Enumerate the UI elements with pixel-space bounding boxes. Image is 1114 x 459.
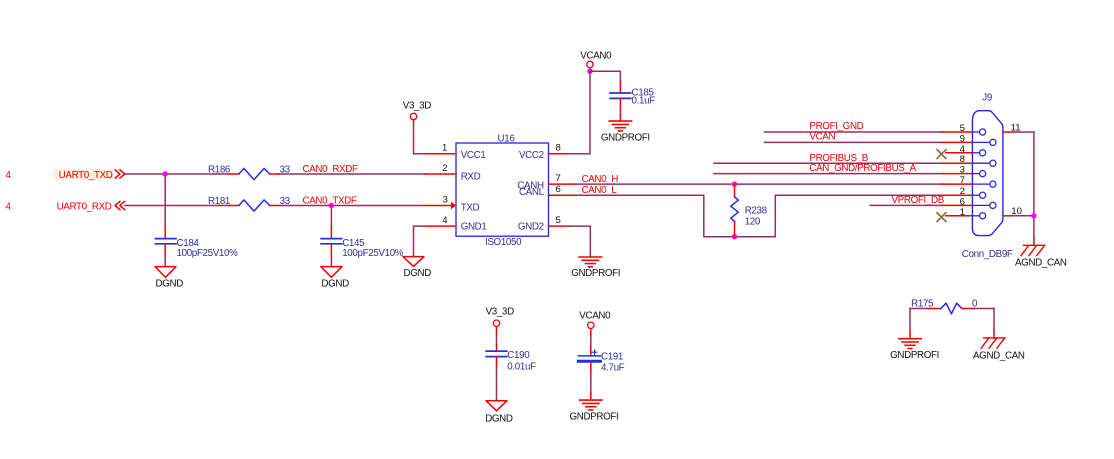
ground GNDPROFI (C185) xyxy=(601,114,650,143)
svg-text:7: 7 xyxy=(960,175,965,186)
resistor R238 termination xyxy=(731,184,768,237)
svg-text:6: 6 xyxy=(556,184,561,195)
junction VCAN0 xyxy=(587,69,592,74)
ground GNDPROFI (C191) xyxy=(570,393,619,423)
svg-text:GNDPROFI: GNDPROFI xyxy=(601,132,650,143)
svg-text:ISO1050: ISO1050 xyxy=(485,237,522,248)
svg-text:UART0_RXD: UART0_RXD xyxy=(57,201,112,212)
op-amp U16 ISO1050 body xyxy=(456,133,549,248)
junction B on CAN0_TXDF net xyxy=(329,203,334,208)
pin 2 RXD xyxy=(425,163,456,174)
capacitor C185 xyxy=(610,82,655,111)
svg-text:8: 8 xyxy=(960,154,965,165)
svg-text:GND2: GND2 xyxy=(518,222,544,233)
J9 pin 7 xyxy=(942,175,996,187)
J9 pin 6 xyxy=(942,196,996,208)
svg-text:C190: C190 xyxy=(507,350,530,361)
ground DGND (pin 4) xyxy=(403,257,431,279)
pin 6 CANL xyxy=(549,184,577,195)
power VCAN0 (C185) xyxy=(580,50,612,69)
ground DGND (C184) xyxy=(155,267,183,290)
wire C184 to DGND xyxy=(164,257,166,266)
wire V3_3D to C190 xyxy=(496,335,498,345)
svg-text:120: 120 xyxy=(745,216,761,227)
svg-text:VCAN: VCAN xyxy=(809,131,835,142)
svg-text:R181: R181 xyxy=(208,196,230,207)
svg-text:AGND_CAN: AGND_CAN xyxy=(973,351,1025,362)
svg-text:R186: R186 xyxy=(208,164,231,175)
power V3_3D (C190) xyxy=(486,307,514,335)
svg-text:0.01uF: 0.01uF xyxy=(507,362,536,373)
svg-text:C191: C191 xyxy=(601,351,623,362)
svg-text:J9: J9 xyxy=(982,92,992,103)
wire C185 to GNDPROFI xyxy=(619,111,621,114)
port UART0_TXD xyxy=(54,169,125,181)
ground GNDPROFI (pin 5) xyxy=(571,257,620,279)
svg-text:CANL: CANL xyxy=(519,187,545,198)
ground DGND (C190) xyxy=(485,401,513,425)
junction R238 bottom xyxy=(732,234,737,239)
svg-text:4.7uF: 4.7uF xyxy=(601,362,625,373)
J9 pin 4 with no-connect X xyxy=(937,144,986,159)
svg-text:VCC1: VCC1 xyxy=(461,150,486,161)
svg-text:DGND: DGND xyxy=(321,278,349,289)
wire VCAN0 to C191 xyxy=(590,337,592,347)
wire UART0_RXD to R181 xyxy=(125,205,230,207)
J9 pin 11 shell xyxy=(1003,122,1020,133)
svg-text:CAN0_TXDF: CAN0_TXDF xyxy=(303,196,357,207)
pin 7 CANH xyxy=(549,173,577,184)
svg-text:VCAN0: VCAN0 xyxy=(579,311,611,322)
wire pin 5 to GNDPROFI xyxy=(569,226,590,257)
svg-text:UART0_TXD: UART0_TXD xyxy=(59,170,113,181)
svg-text:AGND_CAN: AGND_CAN xyxy=(1015,258,1067,269)
svg-text:DGND: DGND xyxy=(156,278,184,289)
ground AGND_CAN (R175) xyxy=(973,331,1025,362)
capacitor C191 polarized xyxy=(578,347,624,375)
ground GNDPROFI (R175) xyxy=(890,332,939,362)
J9 pin 8 xyxy=(942,154,996,166)
wire V3_3D to pin 1 xyxy=(414,125,425,154)
svg-text:GNDPROFI: GNDPROFI xyxy=(570,412,619,423)
J9 pin 9 xyxy=(942,133,996,145)
wire CAN_GND/PROFIBUS_A xyxy=(714,173,942,175)
wire shell 11 to shell 10 to AGND_CAN xyxy=(1014,132,1034,238)
svg-text:5: 5 xyxy=(556,215,561,226)
svg-text:GNDPROFI: GNDPROFI xyxy=(890,350,939,361)
wire R181 to pin 3 xyxy=(279,205,424,207)
svg-text:4: 4 xyxy=(6,202,12,213)
J9 pin 3 xyxy=(942,165,986,177)
J9 pin 1 with no-connect X xyxy=(937,207,986,222)
svg-text:Conn_DB9F: Conn_DB9F xyxy=(962,249,1013,260)
wire C191 to GNDPROFI xyxy=(590,374,592,393)
wire CAN0_L pin6 jog to connector pin 2 xyxy=(576,195,942,237)
power V3_3D (U16) xyxy=(403,100,431,124)
svg-text:6: 6 xyxy=(960,196,965,207)
wire CAN0_H pin7 to connector pin 7 xyxy=(576,183,942,185)
wire C145 to DGND xyxy=(330,257,332,266)
wire R175 left to GNDPROFI xyxy=(909,309,911,332)
resistor R175 xyxy=(910,299,994,314)
pin 4 GND1 xyxy=(424,215,456,226)
wire VPROFI_DB xyxy=(870,204,942,206)
pin 8 VCC2 xyxy=(549,143,569,154)
svg-text:5: 5 xyxy=(960,123,965,134)
svg-text:1: 1 xyxy=(960,207,965,218)
svg-text:4: 4 xyxy=(960,144,966,155)
wire R186 to pin 2 xyxy=(279,173,425,175)
wire PROFIBUS_B xyxy=(714,162,942,164)
svg-text:0.1uF: 0.1uF xyxy=(632,95,656,106)
wire junction A down to C184 xyxy=(164,174,166,227)
svg-text:U16: U16 xyxy=(498,133,516,144)
svg-text:8: 8 xyxy=(556,143,561,154)
J9 pin 5 xyxy=(942,123,986,135)
capacitor C184 xyxy=(155,227,238,259)
port UART0_RXD xyxy=(57,201,125,212)
J9 pin 2 xyxy=(942,186,986,198)
resistor R181 xyxy=(208,196,291,211)
svg-text:100pF25V10%: 100pF25V10% xyxy=(177,248,239,259)
wire R175 right to AGND_CAN xyxy=(993,309,995,331)
svg-text:VPROFI_DB: VPROFI_DB xyxy=(892,195,945,206)
capacitor C190 xyxy=(486,345,536,373)
wire junction B down to C145 xyxy=(330,206,332,228)
wire VCAN0 to C185 xyxy=(590,71,620,82)
ground DGND (C145) xyxy=(321,267,349,290)
svg-text:V3_3D: V3_3D xyxy=(403,100,431,111)
power VCAN0 (C191) xyxy=(579,311,611,337)
resistor R186 xyxy=(208,164,291,179)
svg-text:0: 0 xyxy=(972,299,978,310)
svg-text:2: 2 xyxy=(442,163,447,174)
svg-text:7: 7 xyxy=(556,173,561,184)
wire VCAN0 down to pin 8 xyxy=(568,71,590,154)
svg-text:33: 33 xyxy=(280,164,291,175)
wire PROFI_GND xyxy=(765,131,942,133)
wire C190 to DGND xyxy=(496,368,498,401)
svg-text:VCC2: VCC2 xyxy=(519,150,544,161)
svg-text:GNDPROFI: GNDPROFI xyxy=(571,268,620,279)
svg-text:RXD: RXD xyxy=(461,171,481,182)
pin 1 VCC1 xyxy=(425,143,456,154)
junction A on UART0_TXD net xyxy=(163,171,168,176)
svg-text:R238: R238 xyxy=(745,206,768,217)
svg-text:DGND: DGND xyxy=(404,268,432,279)
svg-text:CAN0_RXDF: CAN0_RXDF xyxy=(303,164,358,175)
svg-text:DGND: DGND xyxy=(485,413,513,424)
svg-text:3: 3 xyxy=(960,165,965,176)
svg-text:4: 4 xyxy=(442,215,448,226)
svg-text:CAN_GND/PROFIBUS_A: CAN_GND/PROFIBUS_A xyxy=(809,163,916,174)
junction shell 10 xyxy=(1031,213,1036,218)
pin 5 GND2 xyxy=(549,215,570,226)
wire shell 10 stub xyxy=(1014,215,1034,217)
svg-text:1: 1 xyxy=(442,143,447,154)
wire UART0_TXD to R186 xyxy=(125,173,230,175)
pin 3 TXD with input arrow xyxy=(424,194,456,209)
svg-text:4: 4 xyxy=(6,170,12,181)
svg-text:TXD: TXD xyxy=(461,202,480,213)
svg-text:33: 33 xyxy=(280,196,291,207)
svg-text:100pF25V10%: 100pF25V10% xyxy=(342,248,404,259)
connector J9 Conn_DB9F xyxy=(962,92,1013,260)
svg-text:9: 9 xyxy=(960,133,965,144)
J9 pin 10 shell xyxy=(1003,206,1022,217)
capacitor C145 xyxy=(321,227,404,259)
junction R238 top xyxy=(732,181,737,186)
wire pin 4 to DGND xyxy=(414,226,425,257)
svg-text:V3_3D: V3_3D xyxy=(486,307,514,318)
ground AGND_CAN (J9 shell) xyxy=(1015,238,1067,269)
svg-text:VCAN0: VCAN0 xyxy=(580,50,612,61)
wire VCAN xyxy=(765,141,942,143)
svg-text:3: 3 xyxy=(443,194,448,205)
svg-text:GND1: GND1 xyxy=(461,222,487,233)
